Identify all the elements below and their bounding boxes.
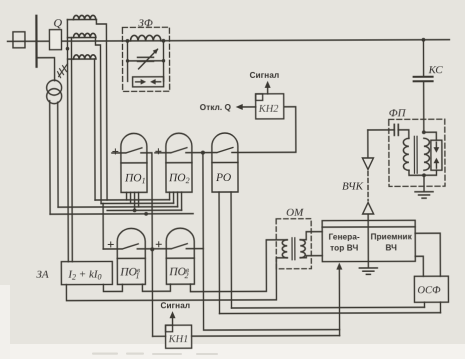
svg-text:тор ВЧ: тор ВЧ	[330, 244, 358, 253]
wire: cable into post	[367, 214, 369, 220]
HF post box (generator/receiver)	[322, 220, 415, 261]
wire: bus line L3	[58, 206, 177, 208]
wire: to FP arrester	[424, 132, 437, 140]
current transformer TA bottom (stub and winding)	[68, 55, 97, 200]
svg-text:ЗФ: ЗФ	[138, 17, 152, 29]
OM right winding	[300, 240, 305, 258]
current transformer TA middle (on bus)	[67, 33, 101, 203]
relay PO2v (second row dome block)	[166, 228, 194, 284]
plus mark PO2	[156, 149, 161, 154]
surge gap squiggle symbol	[58, 64, 68, 78]
inductor of line trap	[130, 35, 160, 41]
contact of PO1v	[103, 244, 152, 249]
relay PO1v (second row dome block)	[117, 228, 145, 284]
arrow: KN1 to signal	[172, 315, 174, 325]
cable arrowhead down (open)	[362, 158, 373, 170]
wire: bus line L5	[50, 213, 193, 216]
arrester box of trap	[133, 77, 164, 87]
svg-text:Q: Q	[53, 16, 62, 30]
system equivalent box at far left	[13, 32, 25, 48]
node dot upper	[422, 130, 426, 134]
node dot	[162, 59, 165, 62]
arrow: KN2 to Otkl.Q	[240, 106, 256, 108]
wire: OM to generator top	[300, 232, 322, 240]
node: PO2-RO junction dot	[201, 151, 205, 155]
wire: HF cable dashed	[367, 171, 369, 200]
wire: trap sides to arrester	[127, 61, 129, 81]
arrow: KN2 to signal	[267, 85, 269, 94]
wire: FP to ground	[423, 175, 425, 191]
variable capacitor of trap	[138, 57, 154, 61]
relay PO2 (dome block)	[166, 133, 192, 192]
wire: bus line L2	[101, 202, 173, 204]
arrester arrows inside	[136, 81, 141, 83]
divider of HF post	[367, 220, 369, 261]
wire: PO2v pin to OM upper	[190, 240, 287, 292]
wire: junction vertical from PO2-RO dot down to generator start line	[203, 152, 340, 330]
wire: left winding bottom	[409, 170, 424, 175]
node dot on L5	[144, 212, 148, 216]
wire with arrow: KN1 to generator start	[338, 267, 340, 336]
plus mark PO1	[113, 149, 118, 154]
OM core	[291, 238, 293, 260]
wire: TV secondary 1	[49, 101, 51, 214]
line trap ZF dashed box	[122, 27, 169, 91]
svg-text:ЗА: ЗА	[36, 269, 48, 281]
ground symbol FP	[415, 192, 433, 198]
capacitor inside FP	[394, 124, 398, 135]
FP transformer core	[413, 136, 415, 173]
pins of PO1	[126, 192, 128, 199]
wire: TV secondary 2	[57, 102, 59, 207]
wire: main HV bus line	[7, 40, 449, 42]
node dot	[126, 59, 129, 62]
svg-text:Сигнал: Сигнал	[160, 301, 190, 310]
wire: KS down into FP	[423, 81, 425, 132]
node: bus to KS junction	[422, 38, 426, 42]
wire: KN1 right to generator arrow line	[192, 335, 340, 338]
wire: KN1 left to rail	[153, 335, 166, 337]
node dot left of trap	[126, 39, 130, 43]
coupling filter FP dashed box	[389, 119, 445, 186]
contact of PO1	[112, 148, 147, 153]
wire: RO contact to KN2	[238, 107, 296, 153]
wire: OSF bottom-left pin	[423, 302, 425, 307]
wire: PO1 contact drop to KN1 rail	[147, 153, 153, 337]
svg-text:КН2: КН2	[258, 104, 280, 115]
coupling capacitor KS	[414, 77, 433, 82]
legs of RO	[218, 192, 220, 313]
wire: trap right branch down	[162, 41, 164, 61]
plus mark PO2v	[156, 242, 161, 247]
relay PO1 (dome block)	[121, 133, 147, 192]
svg-text:Откл. Q: Откл. Q	[200, 103, 232, 112]
wire: trap left branch down	[126, 41, 128, 61]
wire: busbar to voltage transformer	[37, 58, 55, 81]
wire: trap middle horizontal	[128, 60, 164, 62]
ground symbol below post	[359, 268, 377, 274]
pins of PO2	[169, 192, 171, 199]
wire: ZA output long line to OM lower	[66, 258, 287, 301]
node dot on L4	[133, 208, 137, 212]
svg-text:ФП: ФП	[389, 107, 407, 119]
FP transformer right winding	[424, 138, 430, 170]
contact of PO2	[155, 148, 203, 153]
breaker Q rectangle	[49, 30, 61, 50]
caption remnant smudge	[92, 353, 218, 356]
FP arrester box	[431, 140, 442, 170]
OSF filter box	[414, 276, 448, 302]
wire: bus line L4	[107, 209, 181, 211]
svg-text:ОСФ: ОСФ	[417, 285, 441, 296]
ZA measuring box	[61, 261, 112, 284]
svg-text:ПОв2: ПОв2	[168, 266, 189, 280]
busbar vertical bar	[35, 16, 37, 67]
svg-text:Приемник: Приемник	[371, 232, 413, 241]
svg-text:ВЧК: ВЧК	[342, 180, 364, 192]
wire: receiver to OSF 2	[415, 256, 423, 276]
wire: cable link down from FP	[367, 130, 369, 157]
node dot right of trap	[162, 39, 166, 43]
wire: RO leg2 to OSF upper pin	[231, 306, 424, 309]
svg-text:Генера-: Генера-	[329, 233, 360, 242]
node: dot on rail at second row	[150, 247, 154, 251]
OM left winding	[282, 240, 287, 258]
wire: OM to generator bottom	[300, 256, 322, 258]
wire: bus line L1	[95, 199, 169, 201]
svg-text:ОМ: ОМ	[286, 207, 304, 219]
node dot lower	[422, 173, 426, 177]
svg-text:ВЧ: ВЧ	[385, 243, 397, 252]
contact of RO	[203, 147, 238, 152]
plus mark PO1v	[108, 242, 113, 247]
wire: FP cap to transformer	[398, 130, 409, 139]
wire: CT left rail 2	[70, 38, 73, 262]
svg-text:КС: КС	[428, 64, 444, 76]
wire: post to ground	[367, 261, 369, 267]
node: junction dot on rail	[66, 47, 70, 51]
relay RO (dome block)	[212, 133, 238, 192]
OM matching transformer dashed box	[276, 219, 311, 269]
wire: RO leg1 to OSF lower pin	[220, 312, 441, 315]
wire: FP cap to cable	[368, 129, 394, 131]
pins of PO1v chain	[103, 284, 122, 291]
svg-text:КН1: КН1	[168, 334, 189, 345]
pushbutton KN1 box	[166, 325, 192, 348]
svg-text:РО: РО	[215, 172, 232, 184]
pushbutton KN2 box	[256, 94, 284, 119]
wire: FP arrester bottom	[424, 170, 437, 175]
wire: receiver to OSF 1	[415, 233, 440, 276]
contact of PO2v	[152, 244, 203, 249]
wire: bus down to KS	[422, 40, 424, 76]
wire: OSF bottom-right pin	[439, 302, 441, 312]
FP arrester arrows	[435, 142, 437, 148]
svg-text:ПОв1: ПОв1	[119, 266, 140, 280]
svg-text:Сигнал: Сигнал	[250, 71, 280, 80]
cable arrowhead up (open)	[363, 202, 374, 214]
voltage transformer TV (two circles)	[47, 80, 62, 95]
wire: feed to PO1v from bus	[102, 203, 104, 248]
FP transformer left winding	[403, 138, 409, 170]
current transformer TA top (stub and winding)	[67, 15, 107, 200]
adjustment arrow of capacitor	[138, 49, 157, 69]
wire: CT left rail 1	[66, 20, 69, 262]
